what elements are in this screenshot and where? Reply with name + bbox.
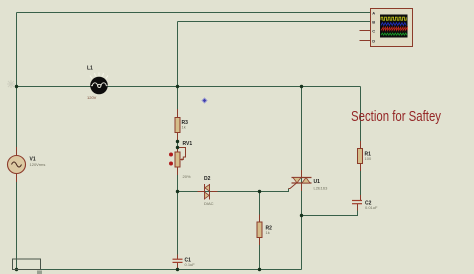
svg-text:C: C bbox=[372, 28, 375, 33]
svg-text:120Vrms: 120Vrms bbox=[30, 162, 46, 167]
svg-text:0.01uF: 0.01uF bbox=[365, 205, 378, 210]
svg-text:120V: 120V bbox=[87, 95, 97, 100]
svg-text:RV1: RV1 bbox=[183, 141, 193, 147]
svg-text:D2: D2 bbox=[204, 176, 211, 182]
svg-text:0.1uF: 0.1uF bbox=[185, 262, 196, 267]
svg-text:DIAC: DIAC bbox=[204, 201, 214, 206]
svg-text:A: A bbox=[372, 10, 375, 15]
svg-text:1k: 1k bbox=[266, 230, 270, 235]
svg-text:L2E163: L2E163 bbox=[314, 186, 329, 191]
svg-text:L1: L1 bbox=[87, 66, 93, 72]
svg-text:1k: 1k bbox=[182, 125, 186, 130]
svg-text:Section for Saftey: Section for Saftey bbox=[351, 108, 441, 125]
svg-text:20%: 20% bbox=[183, 174, 191, 179]
svg-text:U1: U1 bbox=[314, 179, 321, 185]
svg-text:D: D bbox=[372, 38, 375, 43]
svg-text:100: 100 bbox=[365, 156, 372, 161]
svg-text:B: B bbox=[372, 19, 375, 24]
